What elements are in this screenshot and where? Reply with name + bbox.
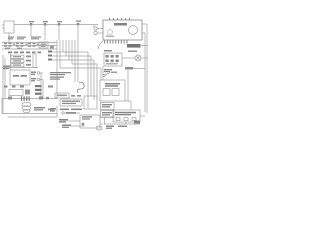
thermal fuse label (106, 126, 114, 129)
wire lower left (2, 67, 38, 69)
terminal block TB1 (39, 42, 48, 48)
ground lug (134, 121, 140, 124)
fuse F1 (3, 66, 10, 70)
pin 4 (106, 60, 109, 63)
interlock switch symbol (103, 72, 117, 77)
connector ticks (21, 96, 30, 101)
bake label (50, 72, 71, 75)
left rail inner (4, 58, 6, 98)
stair connector 3 (69, 60, 94, 100)
pin row labels (106, 63, 118, 64)
junction drop (127, 70, 129, 101)
small part right (39, 97, 43, 100)
wire motor down (100, 123, 103, 125)
drop to bottom wire (104, 118, 106, 125)
stub wires (52, 52, 69, 60)
ladder wires (57, 40, 78, 99)
small symbol mid (62, 112, 80, 114)
bottom symbol 2 (96, 126, 102, 130)
terminal detail (41, 44, 47, 45)
surface switch label S3 (31, 37, 41, 40)
component row under board (4, 86, 24, 88)
wire relay right down (41, 73, 43, 99)
label above latch (104, 50, 112, 51)
terminal drop (125, 122, 127, 124)
wire top feed (14, 24, 98, 26)
wire from oven control (125, 101, 131, 110)
small part right2 (46, 97, 49, 100)
latch switch S8 (104, 53, 122, 66)
small part left (8, 97, 12, 100)
pushbutton switch S6 (11, 64, 31, 67)
dashes right of broil (71, 95, 81, 97)
plug symbol J1 (94, 25, 103, 35)
wire bus N (2, 48, 57, 50)
spacer box (84, 96, 97, 109)
label left of motor (59, 119, 68, 123)
pin 2 (111, 55, 114, 58)
label above lamp (128, 51, 137, 52)
surface element R1 (4, 43, 12, 49)
stub labels left (48, 51, 52, 61)
thermal switch box (101, 111, 115, 118)
warning label (127, 44, 141, 48)
pin 1 (106, 55, 109, 58)
motor box M1 (80, 115, 100, 128)
label top feed A (29, 21, 34, 26)
wire heater to rail (140, 115, 145, 117)
left rail (2, 55, 4, 114)
stair connector 4 (72, 64, 97, 100)
wire drop 2 (44, 25, 46, 41)
broil label (50, 77, 64, 80)
door lock motor M2 (22, 102, 31, 112)
label above motor (66, 112, 76, 114)
bake element R5 (77, 82, 84, 93)
surface element R2 (16, 43, 24, 49)
pushbutton switch S4 (11, 55, 31, 58)
wire bus L2 (2, 45, 57, 47)
wire under heater (104, 123, 140, 125)
stair connector 1 (63, 52, 88, 108)
label top feed C (57, 21, 62, 26)
pin 3 (116, 55, 119, 58)
surface switch label S2 (17, 37, 26, 40)
label left of broil (48, 86, 53, 88)
capacitor C1 (25, 90, 30, 95)
pin 5 (111, 60, 114, 63)
pin label column (35, 85, 42, 95)
wire bus L1 (2, 42, 57, 44)
wire curve from clock (98, 41, 103, 49)
pin 6 (116, 60, 119, 63)
wire latch to oven box (102, 66, 104, 80)
stair connector 5 (60, 68, 101, 80)
label top feed D (76, 21, 81, 26)
transformer T1 (2, 21, 14, 43)
wire label-to-motor (68, 120, 80, 122)
oven control A2 (100, 80, 125, 101)
label row mid (60, 109, 82, 111)
left panel label row (8, 52, 41, 54)
terminal detail2 (41, 46, 46, 47)
surface switch label S1 (8, 37, 14, 40)
clock pin header (104, 41, 128, 44)
relay board pins upper (31, 72, 43, 75)
surface element R3 (28, 43, 36, 47)
bottom symbol 1 (62, 125, 85, 128)
door switch S9 (125, 67, 145, 70)
panel feed (10, 54, 12, 70)
relay board pins lower (31, 78, 43, 81)
label top feed B (43, 21, 48, 26)
clock control U1 (103, 18, 147, 113)
label row mid 2 (50, 108, 56, 112)
wire drop 4 (77, 25, 79, 41)
indicator lamp DS2 (122, 55, 148, 61)
connector P1 (9, 90, 23, 96)
broil element R6 (55, 93, 69, 98)
vertical feeds left panel (33, 53, 36, 68)
heater box H1 (113, 110, 140, 122)
thermostat box (101, 103, 115, 110)
bus filler 1 (13, 44, 54, 49)
wire drop 1 (30, 25, 32, 38)
door switch S7 (60, 99, 82, 106)
bottom-left loop (2, 99, 57, 118)
label under latch (104, 69, 112, 72)
wire to right rail (141, 45, 148, 47)
stair connector 2 (66, 56, 91, 96)
second label (118, 126, 127, 128)
relay board A1 (10, 70, 30, 85)
wire motor right (100, 116, 113, 118)
aux label (48, 109, 54, 111)
pushbutton switch S5 (11, 59, 31, 62)
door lock label (34, 107, 45, 111)
wire drop 3 (58, 25, 60, 41)
